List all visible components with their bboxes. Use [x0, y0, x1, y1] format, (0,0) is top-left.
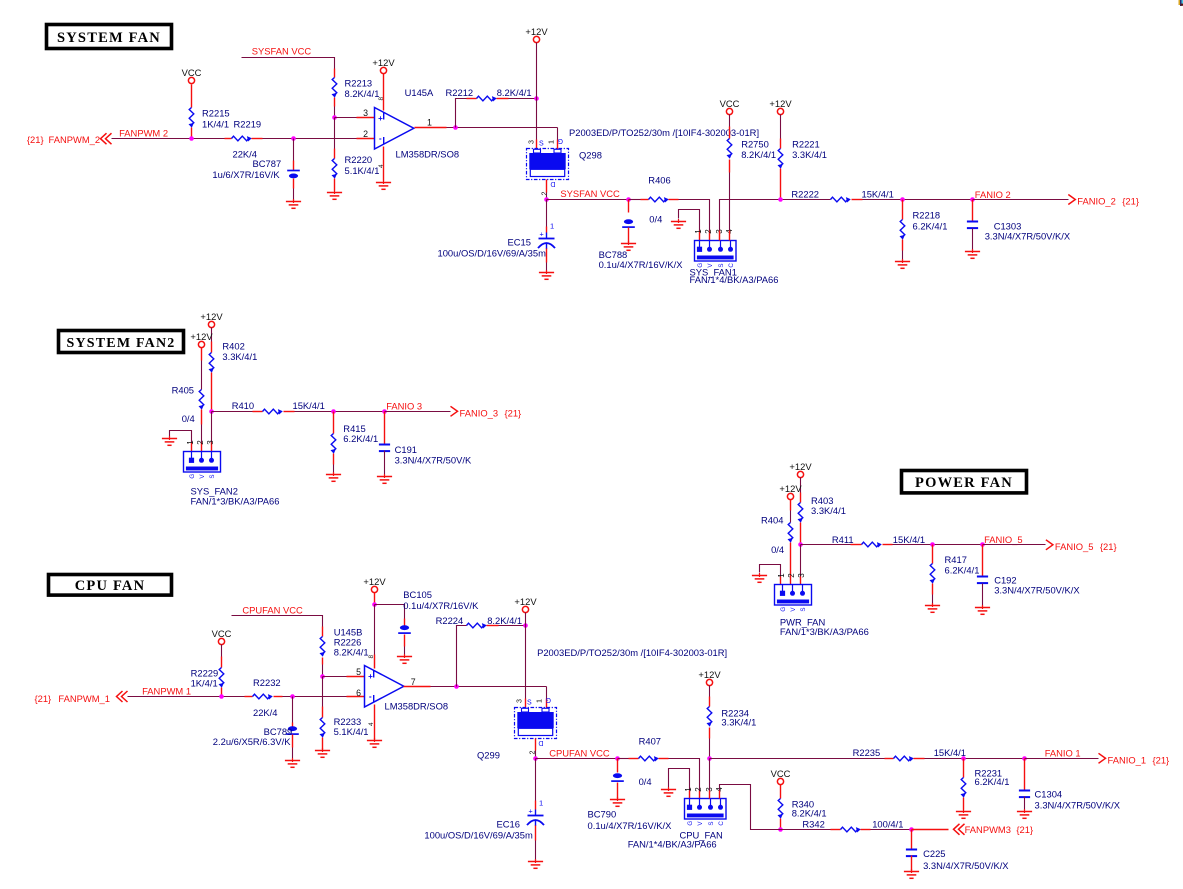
svg-text:FANPWM_2: FANPWM_2 — [49, 134, 101, 145]
svg-text:+: + — [529, 807, 533, 816]
svg-text:S: S — [209, 474, 216, 478]
power symbol VCC — [777, 778, 783, 784]
svg-text:P2003ED/P/TO252/30m /[10IF4-30: P2003ED/P/TO252/30m /[10IF4-302003-01R] — [569, 127, 759, 138]
svg-text:S: S — [708, 821, 715, 825]
svg-text:+12V: +12V — [789, 461, 812, 472]
wire FANIO_3 — [385, 411, 451, 413]
wire C225 to ground — [911, 856, 913, 871]
svg-text:{21}: {21} — [1153, 754, 1170, 765]
wire +12V to R2221 — [780, 115, 782, 139]
wire CPUFAN_VCC to fan — [536, 758, 618, 760]
off-page connector FANIO_3 — [451, 406, 458, 416]
wire FANIO_2 — [973, 199, 1069, 201]
wire BC790 to ground — [617, 783, 619, 799]
wire R2232 to op-amp pin6 — [274, 696, 283, 698]
svg-text:{21}: {21} — [505, 407, 522, 418]
junction — [626, 197, 631, 202]
junction — [615, 756, 620, 761]
svg-text:8.2K/4/1: 8.2K/4/1 — [345, 88, 380, 99]
svg-text:FANIO 3: FANIO 3 — [386, 400, 422, 411]
resistor R340 — [778, 799, 783, 819]
wire R2219 to op-amp pin2 — [252, 138, 263, 140]
svg-text:FANIO_1: FANIO_1 — [1108, 754, 1147, 765]
svg-text:100u/OS/D/16V/69/A/35m: 100u/OS/D/16V/69/A/35m — [424, 830, 533, 841]
wire +12V to op-amp pin8 — [374, 593, 376, 605]
wire to EC16 — [535, 759, 537, 801]
power symbol +12V — [797, 471, 803, 477]
wire CPU_FAN pin3 to sense node — [709, 759, 711, 791]
junction — [189, 136, 194, 141]
svg-text:0/4: 0/4 — [771, 544, 784, 555]
svg-text:+: + — [378, 114, 383, 123]
svg-text:LM358DR/SO8: LM358DR/SO8 — [396, 148, 460, 159]
wire R2222 to R2218 node — [852, 199, 863, 201]
wire Q299 drain down — [535, 739, 537, 751]
svg-text:3.3K/4/1: 3.3K/4/1 — [721, 716, 756, 727]
resistor R2226 — [320, 637, 325, 657]
svg-text:3: 3 — [363, 108, 368, 118]
svg-text:+: + — [368, 672, 373, 681]
ground — [286, 199, 301, 208]
ground — [162, 436, 177, 445]
svg-text:+12V: +12V — [200, 311, 223, 322]
svg-text:{21}: {21} — [1122, 196, 1139, 207]
resistor R2219 — [232, 136, 252, 141]
svg-text:R2235: R2235 — [853, 747, 881, 758]
junction — [544, 197, 549, 202]
ground — [397, 654, 412, 663]
capacitor C225 — [906, 850, 917, 857]
wire SYSFAN_VCC — [242, 58, 335, 69]
wire SYSFAN_VCC to fan — [547, 199, 629, 201]
svg-text:FANPWM 2: FANPWM 2 — [119, 128, 168, 139]
op-amp U145A — [375, 108, 414, 150]
wire PWR_FAN pin1 to ground — [760, 565, 781, 577]
capacitor C1304 — [1019, 791, 1030, 798]
junction — [320, 674, 325, 679]
wire VCC to R340 — [780, 785, 782, 799]
wire R2221 to FANIO_2 net — [780, 169, 782, 200]
svg-text:C225: C225 — [923, 848, 945, 859]
wire C1303 to ground — [972, 229, 974, 251]
wire op-amp output to Q299 gate — [546, 687, 548, 699]
ground — [965, 249, 980, 258]
ground — [661, 787, 676, 796]
wire op-amp output — [404, 686, 431, 688]
wire CPU_FAN pin1 to ground — [669, 769, 690, 791]
wire R2226 to pin5 node — [322, 658, 324, 665]
wire to R2232 — [245, 696, 253, 698]
svg-text:R2220: R2220 — [345, 154, 373, 165]
svg-text:C: C — [718, 821, 725, 826]
ground — [621, 241, 636, 250]
wire R415 to ground — [333, 454, 335, 465]
section title POWER FAN — [902, 471, 1027, 493]
svg-text:P2003ED/P/TO252/30m /[10IF4-30: P2003ED/P/TO252/30m /[10IF4-302003-01R] — [537, 647, 727, 658]
wire +12V to R2234 — [709, 686, 711, 697]
svg-text:0/4: 0/4 — [649, 214, 662, 225]
svg-text:FANPWM 1: FANPWM 1 — [142, 685, 191, 696]
wire node to R2233 — [322, 677, 324, 707]
power symbol +12V — [371, 586, 377, 592]
svg-text:3.3K/4/1: 3.3K/4/1 — [811, 505, 846, 516]
svg-text:100u/OS/D/16V/69/A/35m: 100u/OS/D/16V/69/A/35m — [438, 247, 547, 258]
ground — [376, 180, 391, 189]
wire to R415 — [333, 412, 335, 434]
wire to BC789 — [292, 697, 294, 723]
ground — [956, 809, 971, 818]
wire FANIO_1 — [1025, 758, 1099, 760]
wire R2218 to ground — [902, 240, 904, 251]
section title CPU FAN — [49, 575, 172, 596]
wire feedback to R2212 — [456, 99, 467, 128]
svg-text:3: 3 — [514, 699, 523, 703]
svg-text:+12V: +12V — [525, 26, 548, 37]
power symbol VCC — [726, 108, 732, 114]
wire R2750 to SYS_FAN1 pin4 — [729, 160, 731, 173]
svg-text:3.3N/4/X7R/50V/K/X: 3.3N/4/X7R/50V/K/X — [994, 585, 1080, 596]
capacitor C1303 — [967, 222, 978, 229]
wire SYS_FAN1 pin3 sense — [720, 200, 831, 241]
wire BC789 to ground — [292, 735, 294, 748]
resistor R2215 — [189, 108, 194, 128]
svg-text:R2232: R2232 — [253, 677, 281, 688]
wire +12V to R404 — [790, 500, 792, 511]
wire +12V to R403 — [800, 478, 802, 493]
ground — [610, 797, 625, 806]
wire to R2219 — [225, 138, 232, 140]
svg-text:5: 5 — [356, 667, 361, 677]
svg-text:1: 1 — [535, 699, 544, 703]
resistor R404 — [788, 523, 793, 543]
svg-text:SYSFAN VCC: SYSFAN VCC — [560, 188, 620, 199]
svg-text:SYSTEM FAN: SYSTEM FAN — [57, 30, 161, 46]
ground — [326, 472, 341, 481]
capacitor C192 — [977, 577, 988, 584]
wire node to SYS_FAN2 pin3 — [211, 412, 213, 443]
svg-text:{21}: {21} — [1016, 824, 1033, 835]
wire SYS_FAN2 pin1 to ground — [170, 431, 192, 443]
svg-text:3: 3 — [206, 440, 215, 445]
wire R2213 to pin3 node — [334, 98, 336, 107]
resistor R2218 — [900, 220, 905, 240]
wire R2234 to sense node — [709, 728, 711, 739]
svg-text:0/4: 0/4 — [639, 776, 652, 787]
junction — [778, 197, 783, 202]
capacitor EC16 — [527, 799, 544, 827]
junction — [533, 756, 538, 761]
resistor R2224 — [467, 623, 487, 628]
svg-text:7: 7 — [411, 677, 416, 687]
wire op-amp output to Q298 gate — [557, 128, 559, 140]
svg-text:15K/4/1: 15K/4/1 — [934, 747, 966, 758]
svg-text:FANIO_2: FANIO_2 — [1077, 196, 1116, 207]
wire R405 to SYS_FAN2 pin2 — [201, 410, 203, 425]
junction — [454, 684, 459, 689]
wire R2235 to nodes — [914, 758, 925, 760]
resistor R405 — [199, 390, 204, 410]
junction — [900, 197, 905, 202]
ground — [327, 190, 342, 199]
svg-text:C1304: C1304 — [1035, 788, 1063, 799]
svg-text:1u/6/X7R/16V/K: 1u/6/X7R/16V/K — [212, 169, 280, 180]
svg-text:R2212: R2212 — [446, 87, 474, 98]
wire to EC15 — [546, 200, 548, 227]
junction — [778, 827, 783, 832]
wire to C192 — [982, 545, 984, 577]
svg-text:FANIO 2: FANIO 2 — [975, 189, 1011, 200]
svg-text:5.1K/4/1: 5.1K/4/1 — [345, 165, 380, 176]
capacitor C191 — [379, 445, 390, 452]
junction — [291, 136, 296, 141]
resistor R403 — [798, 503, 803, 523]
wire node to PWR_FAN pin3 — [800, 545, 802, 577]
power symbol +12V — [208, 321, 214, 327]
off-page connector FANIO_5 — [1046, 540, 1053, 550]
power symbol +12V — [706, 679, 712, 685]
svg-text:R406: R406 — [648, 174, 670, 185]
svg-text:R2221: R2221 — [792, 138, 820, 149]
svg-text:BC105: BC105 — [403, 589, 432, 600]
svg-text:FANIO 1: FANIO 1 — [1045, 747, 1081, 758]
junction — [534, 96, 539, 101]
wire R2229 to FANPWM_1 net — [221, 688, 223, 697]
svg-text:EC15: EC15 — [508, 236, 531, 247]
transistor Q298 — [527, 149, 569, 180]
connector CPU_FAN — [685, 799, 727, 820]
svg-text:8.2K/4/1: 8.2K/4/1 — [487, 615, 522, 626]
svg-text:R2224: R2224 — [436, 615, 464, 626]
resistor R2231 — [961, 778, 966, 798]
wire R2233 to ground — [322, 738, 324, 750]
resistor R411 — [862, 542, 882, 547]
svg-text:0/4: 0/4 — [182, 413, 195, 424]
svg-text:6.2K/4/1: 6.2K/4/1 — [913, 220, 948, 231]
resistor R2750 — [727, 139, 732, 159]
wire +12V to op-amp pin8 — [383, 74, 385, 111]
wire op-amp pin4 to ground — [383, 147, 385, 181]
svg-text:CPUFAN VCC: CPUFAN VCC — [549, 747, 610, 758]
svg-text:0.1u/4/X7R/16V/K/X: 0.1u/4/X7R/16V/K/X — [599, 259, 684, 270]
wire to R2231 — [963, 759, 965, 778]
wire FANIO_5 — [983, 544, 1046, 546]
junction — [930, 542, 935, 547]
wire R2212 to +12V node — [497, 98, 509, 100]
svg-text:VCC: VCC — [771, 768, 791, 779]
page corner mark — [1179, 0, 1183, 6]
junction — [707, 756, 712, 761]
svg-text:BC790: BC790 — [588, 808, 617, 819]
wire FANPWM_1 — [128, 696, 245, 698]
svg-text:VCC: VCC — [720, 98, 740, 109]
svg-text:FANPWM_1: FANPWM_1 — [58, 693, 110, 704]
section title SYSTEM FAN2 — [59, 331, 184, 353]
svg-text:FANPWM3: FANPWM3 — [965, 824, 1011, 835]
junction — [332, 115, 337, 120]
svg-text:3.3N/4/X7R/50V/K/X: 3.3N/4/X7R/50V/K/X — [923, 860, 1009, 871]
svg-text:6.2K/4/1: 6.2K/4/1 — [343, 433, 378, 444]
resistor R2221 — [778, 149, 783, 169]
svg-text:D: D — [550, 180, 555, 187]
wire to R417 — [932, 545, 934, 564]
svg-text:+12V: +12V — [363, 576, 386, 587]
capacitor BC790 — [611, 773, 624, 781]
wire R2220 to ground — [334, 179, 336, 191]
wire to FANPWM3 chevron — [912, 829, 949, 831]
resistor R2212 — [477, 96, 497, 101]
wire C192 to ground — [982, 584, 984, 607]
resistor R2235 — [894, 756, 914, 761]
svg-text:G: G — [558, 137, 563, 144]
resistor R2222 — [831, 197, 851, 202]
junction — [331, 409, 336, 414]
wire R406 to SYS_FAN1 pin2 — [669, 199, 679, 201]
ground — [285, 758, 300, 767]
svg-text:1: 1 — [550, 222, 554, 231]
svg-text:1: 1 — [777, 573, 786, 578]
resistor R2233 — [320, 718, 325, 738]
svg-text:1: 1 — [547, 140, 556, 144]
capacitor BC105 — [398, 625, 411, 633]
svg-text:3.3K/4/1: 3.3K/4/1 — [792, 149, 827, 160]
resistor R342 — [841, 827, 861, 832]
power symbol +12V — [380, 67, 386, 73]
resistor R406 — [649, 197, 669, 202]
svg-text:-: - — [369, 691, 372, 701]
section title SYSTEM FAN — [47, 25, 172, 49]
svg-text:8.2K/4/1: 8.2K/4/1 — [497, 87, 532, 98]
wire to C225 — [911, 830, 913, 850]
wire +12V to R402 — [211, 328, 213, 342]
wire R404 to PWR_FAN pin2 — [790, 543, 792, 585]
wire R407 to CPU_FAN pin2 — [659, 758, 669, 760]
wire R402 to node — [211, 373, 213, 412]
wire VCC to R2215 — [191, 85, 193, 108]
svg-text:G: G — [780, 607, 787, 612]
op-amp U145B — [365, 666, 404, 708]
svg-text:R404: R404 — [761, 514, 783, 525]
svg-text:3.3N/4/X7R/50V/K: 3.3N/4/X7R/50V/K — [395, 454, 472, 465]
svg-text:8.2K/4/1: 8.2K/4/1 — [741, 149, 776, 160]
svg-text:S: S — [527, 700, 532, 707]
wire VCC to R2750 — [729, 115, 731, 127]
ground — [528, 859, 543, 868]
svg-text:S: S — [539, 141, 544, 148]
ground — [315, 748, 330, 757]
svg-text:2.2u/6/X5R/6.3V/K: 2.2u/6/X5R/6.3V/K — [213, 736, 291, 747]
resistor R402 — [209, 353, 214, 373]
svg-text:{21}: {21} — [27, 134, 44, 145]
svg-text:+12V: +12V — [779, 483, 802, 494]
junction — [219, 694, 224, 699]
wire R2215 to FANPWM_2 net — [191, 128, 193, 139]
svg-text:1: 1 — [427, 117, 432, 127]
svg-text:R405: R405 — [172, 384, 194, 395]
svg-text:-: - — [379, 133, 382, 143]
svg-text:+: + — [540, 230, 544, 239]
wire to BC787 — [293, 139, 295, 161]
svg-text:1K/4/1: 1K/4/1 — [191, 677, 218, 688]
wire sense to R2235 — [710, 758, 885, 760]
svg-text:R2215: R2215 — [202, 107, 230, 118]
svg-text:FANIO_3: FANIO_3 — [460, 407, 499, 418]
svg-text:2: 2 — [787, 573, 796, 578]
capacitor BC789 — [286, 726, 299, 734]
svg-text:VCC: VCC — [182, 67, 202, 78]
svg-text:LM358DR/SO8: LM358DR/SO8 — [385, 701, 449, 712]
svg-text:R2218: R2218 — [913, 209, 941, 220]
wire R410 to nodes — [284, 411, 295, 413]
svg-text:R2219: R2219 — [234, 118, 262, 129]
svg-text:3.3N/4/X7R/50V/K/X: 3.3N/4/X7R/50V/K/X — [985, 230, 1071, 241]
transistor Q299 — [515, 708, 557, 739]
resistor R407 — [639, 756, 659, 761]
svg-text:FAN/1*4/BK/A3/PA66: FAN/1*4/BK/A3/PA66 — [690, 274, 779, 285]
svg-text:1K/4/1: 1K/4/1 — [202, 118, 229, 129]
wire node to R2220 — [334, 118, 336, 149]
svg-text:3.3K/4/1: 3.3K/4/1 — [222, 351, 257, 362]
svg-text:FAN/1*3/BK/A3/PA66: FAN/1*3/BK/A3/PA66 — [191, 495, 280, 506]
svg-text:1: 1 — [186, 440, 195, 445]
wire FANPWM3 to R342 — [769, 829, 831, 831]
off-page connector FANIO_2 — [1068, 195, 1075, 205]
junction — [382, 409, 387, 414]
wire VCC to R2229 — [221, 645, 223, 657]
svg-text:{21}: {21} — [1100, 541, 1117, 552]
wire BC788 to ground — [628, 228, 630, 243]
svg-text:1: 1 — [684, 787, 693, 792]
svg-text:3: 3 — [797, 573, 806, 578]
svg-text:1: 1 — [694, 229, 703, 234]
svg-text:+12V: +12V — [769, 98, 792, 109]
wire feedback to R2224 — [457, 626, 467, 687]
resistor R2213 — [332, 78, 337, 98]
wire node to op-amp pin5 — [323, 676, 347, 678]
svg-text:2: 2 — [196, 440, 205, 445]
wire R417 to ground — [932, 584, 934, 595]
junction — [372, 602, 377, 607]
svg-text:R407: R407 — [639, 736, 661, 747]
power symbol +12V — [198, 341, 204, 347]
svg-text:+12V: +12V — [698, 669, 721, 680]
resistor R2220 — [332, 159, 337, 179]
svg-text:15K/4/1: 15K/4/1 — [862, 189, 894, 200]
connector SYS_FAN1 — [695, 241, 737, 262]
resistor R415 — [331, 434, 336, 454]
svg-text:R411: R411 — [832, 534, 854, 545]
wire R342 to C225 node — [861, 829, 871, 831]
wire +12V down to Q299 source — [525, 613, 527, 699]
wire R403 to node — [800, 523, 802, 545]
ground — [1017, 809, 1032, 818]
ground — [671, 219, 686, 228]
svg-text:VCC: VCC — [212, 628, 232, 639]
wire Q298 drain down — [546, 180, 548, 193]
svg-text:3.3N/4/X7R/50V/K/X: 3.3N/4/X7R/50V/K/X — [1035, 799, 1121, 810]
svg-text:FAN/1*4/BK/A3/PA66: FAN/1*4/BK/A3/PA66 — [628, 839, 717, 850]
wire R2231 to ground — [963, 798, 965, 810]
ground — [975, 605, 990, 614]
ground — [904, 869, 919, 878]
ground — [367, 738, 382, 747]
ground — [377, 474, 392, 483]
wire node to R411 — [801, 544, 851, 546]
svg-text:FANIO_5: FANIO_5 — [984, 534, 1023, 545]
svg-text:CPUFAN VCC: CPUFAN VCC — [242, 604, 303, 615]
svg-text:8.2K/4/1: 8.2K/4/1 — [792, 807, 827, 818]
svg-text:EC16: EC16 — [497, 818, 520, 829]
svg-text:FANIO_5: FANIO_5 — [1055, 541, 1094, 552]
